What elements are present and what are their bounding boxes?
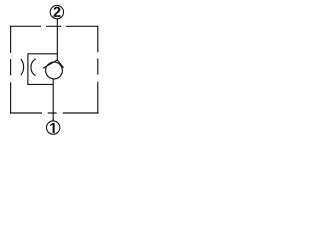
cartridge envelope dashed border: top edge xyxy=(10,25,98,27)
cartridge envelope dashed border: left edge xyxy=(10,26,12,114)
wire port 2 line xyxy=(56,19,58,60)
orifice right arc xyxy=(31,59,36,76)
port 2 circle xyxy=(50,5,63,18)
check valve ball xyxy=(46,62,63,79)
orifice left arc xyxy=(21,59,24,75)
wire bypass bottom segment xyxy=(28,83,53,85)
wire bypass left leg xyxy=(27,53,29,85)
cartridge envelope dashed border: bottom edge xyxy=(10,112,98,114)
wire port 1 line xyxy=(52,79,54,121)
port 2 label "2" xyxy=(53,7,60,17)
check valve seat left arm xyxy=(43,60,57,68)
port 1 circle xyxy=(47,121,60,134)
port 1 label "1" xyxy=(50,123,54,133)
wire bypass top segment xyxy=(28,53,57,55)
cartridge envelope dashed border: right edge xyxy=(97,26,99,114)
check valve seat right arm xyxy=(57,60,63,68)
